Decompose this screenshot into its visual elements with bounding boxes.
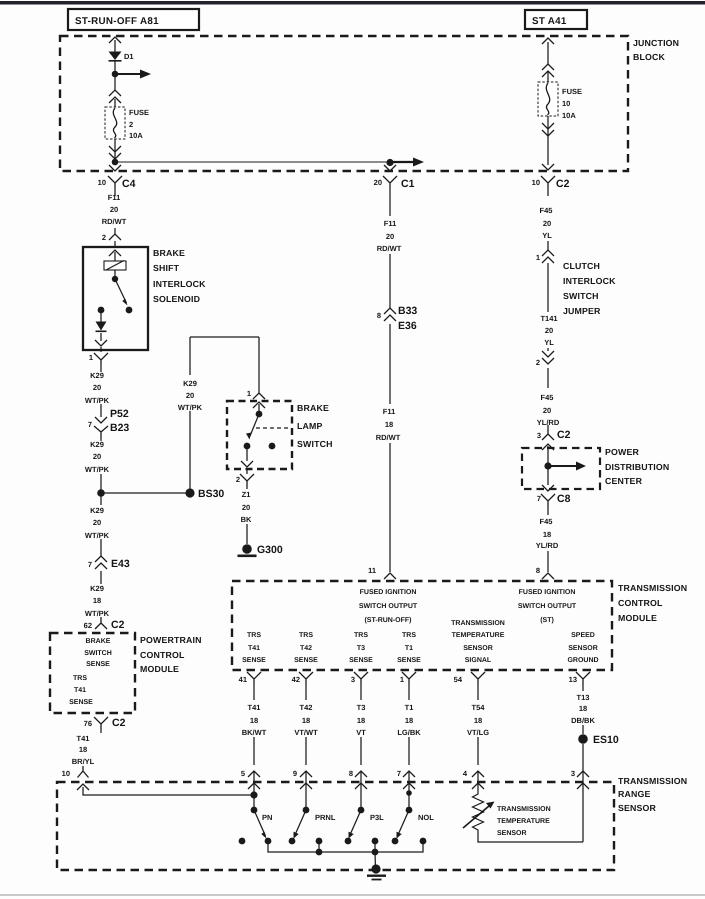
wire pin7 into TRS [408, 771, 410, 810]
svg-text:18: 18 [79, 745, 87, 754]
contact dot row 5 (P3L target) [345, 838, 352, 845]
svg-text:CONTROL: CONTROL [140, 650, 185, 660]
connector TRS pin9 [300, 771, 312, 789]
wire T13 [582, 685, 584, 734]
svg-text:BLOCK: BLOCK [633, 52, 666, 62]
wire fuse10 bottom [547, 116, 549, 165]
label TRS T42 SENSE [294, 632, 318, 664]
contact dot row 2 (PN target) [265, 838, 272, 845]
junction dot feeding C1/C4 [112, 159, 119, 166]
splice BS30 [185, 488, 194, 497]
svg-text:20: 20 [242, 503, 250, 512]
svg-text:76: 76 [84, 719, 92, 728]
wire label F45 20 YL [540, 206, 553, 240]
connector chevron brake lamp exit [241, 461, 253, 467]
svg-text:P52: P52 [110, 408, 129, 420]
label BRAKE LAMP SWITCH [297, 403, 333, 449]
contact dot row 7 (NOL target) [392, 838, 399, 845]
wire label Z1 20 BK [241, 490, 252, 524]
svg-text:F45: F45 [540, 206, 553, 215]
transmission range sensor dashed box [57, 782, 614, 870]
thermistor arrow [463, 802, 495, 829]
wire down to brake lamp switch [258, 337, 260, 393]
svg-text:10: 10 [98, 178, 106, 187]
svg-text:SENSE: SENSE [397, 657, 421, 664]
svg-text:18: 18 [93, 596, 101, 605]
connector pin1 solenoid (Y) [94, 353, 108, 366]
svg-text:WT/PK: WT/PK [85, 465, 110, 474]
connector C4 [108, 176, 122, 189]
splice ES10 [578, 734, 588, 744]
svg-text:SIGNAL: SIGNAL [465, 657, 492, 664]
wire pin5 into TRS [253, 771, 255, 810]
svg-text:T41: T41 [74, 687, 86, 694]
svg-text:1: 1 [536, 253, 540, 262]
label POWERTRAIN CONTROL MODULE [140, 635, 202, 674]
svg-text:WT/PK: WT/PK [85, 531, 110, 540]
svg-text:SENSOR: SENSOR [463, 645, 493, 652]
svg-text:SHIFT: SHIFT [153, 263, 180, 273]
svg-text:FUSED IGNITION: FUSED IGNITION [519, 589, 576, 596]
svg-text:F11: F11 [383, 407, 396, 416]
svg-text:F45: F45 [541, 393, 554, 402]
arrowhead P3L arm [349, 832, 354, 839]
wire D1 to dot [114, 61, 116, 90]
top page bar [0, 1, 705, 5]
svg-text:18: 18 [385, 420, 393, 429]
in-line connector E43 [95, 556, 107, 569]
pivot dot P3L [358, 807, 365, 814]
svg-text:SWITCH: SWITCH [84, 650, 112, 657]
svg-text:RD/WT: RD/WT [377, 244, 402, 253]
powertrain control module dashed box [50, 633, 135, 713]
svg-text:10A: 10A [562, 111, 576, 120]
label B33 E36 [398, 305, 417, 332]
svg-text:P3L: P3L [370, 813, 384, 822]
svg-text:41: 41 [239, 675, 247, 684]
node ST-RUN-OFF A81 [68, 9, 199, 30]
svg-text:BS30: BS30 [198, 488, 224, 500]
svg-text:T3: T3 [357, 703, 366, 712]
svg-text:C8: C8 [557, 493, 571, 505]
junction dot on A81 branch [112, 71, 119, 78]
label TRS T3 SENSE [349, 632, 373, 664]
ground at TRS bottom [367, 864, 386, 880]
wire to C2 pdc [547, 425, 549, 429]
svg-text:2: 2 [129, 120, 133, 129]
wire pin8 into TRS [360, 771, 362, 810]
svg-text:RD/WT: RD/WT [102, 217, 127, 226]
wire left contact to diode [100, 310, 102, 322]
svg-text:PRNL: PRNL [315, 813, 336, 822]
svg-text:B23: B23 [110, 422, 129, 434]
arrowhead brake lamp arm [246, 433, 252, 440]
svg-text:T42: T42 [300, 703, 313, 712]
svg-text:VT: VT [356, 728, 366, 737]
diode in solenoid [96, 322, 107, 333]
pivot dot PN [251, 807, 258, 814]
wire label F11 18 RD/WT [376, 407, 401, 442]
arrowhead PRNL arm [294, 832, 299, 839]
svg-text:BRAKE: BRAKE [297, 403, 329, 413]
wire into coil [114, 252, 116, 261]
svg-text:TRANSMISSION: TRANSMISSION [618, 776, 687, 786]
thermistor RT1 zigzag [473, 791, 484, 833]
svg-text:SENSE: SENSE [69, 699, 93, 706]
svg-text:8: 8 [536, 566, 540, 575]
contact bus polyline [268, 841, 423, 852]
svg-text:SENSE: SENSE [242, 657, 266, 664]
svg-text:TRANSMISSION: TRANSMISSION [451, 620, 505, 627]
wire pin10 elbow to pin5 column [83, 787, 254, 795]
svg-text:D1: D1 [124, 52, 134, 61]
wire T42 [305, 685, 307, 765]
svg-text:SENSE: SENSE [349, 657, 373, 664]
wire dot to fuse2 [114, 99, 116, 107]
svg-text:BR/YL: BR/YL [72, 757, 95, 766]
connector C2 pin3 pdc (male) [542, 429, 554, 440]
svg-text:SENSE: SENSE [86, 661, 110, 668]
svg-text:T41: T41 [248, 645, 260, 652]
svg-text:10A: 10A [129, 131, 143, 140]
connector C2 pin62 (male) [95, 619, 107, 629]
switch arm brake lamp [250, 414, 259, 436]
svg-text:TRS: TRS [247, 632, 261, 639]
svg-text:MODULE: MODULE [140, 664, 179, 674]
svg-text:(ST-RUN-OFF): (ST-RUN-OFF) [364, 616, 411, 624]
wire pin3 into TRS down [582, 771, 584, 842]
svg-text:G300: G300 [257, 544, 283, 556]
svg-text:ST A41: ST A41 [532, 16, 567, 27]
svg-text:9: 9 [293, 769, 297, 778]
contact dot in solenoid (right) [126, 307, 133, 314]
connector TRS pin5 [248, 771, 260, 789]
svg-text:20: 20 [543, 219, 551, 228]
svg-text:NOL: NOL [418, 813, 434, 822]
switch arm P3L [350, 810, 362, 836]
svg-text:SENSOR: SENSOR [497, 830, 527, 837]
svg-text:YL: YL [542, 231, 552, 240]
svg-text:K29: K29 [90, 371, 104, 380]
wire below C2-76 [100, 730, 102, 733]
wire horizontal bus to C1 [115, 161, 390, 163]
in-line connector chevrons above fuse 10 [542, 64, 554, 77]
svg-text:18: 18 [357, 716, 365, 725]
wire label K29 20 WT/PK (branch) [178, 379, 203, 412]
wire brake lamp exit [246, 446, 248, 474]
connector TRS pin8 [355, 771, 367, 789]
svg-text:T13: T13 [577, 693, 590, 702]
contact dot row 6 [372, 838, 379, 845]
svg-text:2: 2 [102, 233, 106, 242]
connector TCM pin42 (Y) [299, 672, 313, 685]
svg-text:18: 18 [302, 716, 310, 725]
svg-text:SPEED: SPEED [571, 632, 595, 639]
svg-text:7: 7 [397, 769, 401, 778]
junction dot on K29 wire [97, 489, 105, 497]
fuse F2 [105, 107, 125, 139]
pivot dot NOL [406, 807, 413, 814]
contact dot row 8 [420, 838, 427, 845]
svg-text:18: 18 [405, 716, 413, 725]
connector TCM pin54 (Y) [471, 672, 485, 685]
svg-text:10: 10 [562, 99, 570, 108]
svg-text:JUNCTION: JUNCTION [633, 38, 679, 48]
contact dot row 3 (PRNL target) [289, 838, 296, 845]
svg-text:C2: C2 [112, 717, 126, 729]
pivot dot PRNL [303, 807, 310, 814]
svg-text:18: 18 [579, 704, 587, 713]
svg-text:10: 10 [62, 769, 70, 778]
svg-text:E36: E36 [398, 320, 417, 332]
svg-text:20: 20 [374, 178, 382, 187]
connector TRS pin7 [403, 771, 415, 789]
label BRAKE SHIFT INTERLOCK SOLENOID [153, 248, 206, 304]
svg-text:T41: T41 [77, 734, 90, 743]
junction dot on bus right [372, 849, 379, 856]
svg-text:GROUND: GROUND [567, 657, 598, 664]
connector chevron below A81 [109, 37, 121, 43]
wire label T13 18 DB/BK [571, 693, 595, 725]
arrowhead of solenoid switch arm [122, 299, 127, 306]
svg-text:SWITCH OUTPUT: SWITCH OUTPUT [518, 603, 577, 610]
wire C1 down [389, 189, 391, 572]
svg-text:DB/BK: DB/BK [571, 716, 595, 725]
svg-text:FUSED IGNITION: FUSED IGNITION [360, 589, 417, 596]
svg-text:7: 7 [88, 420, 92, 429]
connector C1 [383, 176, 397, 189]
svg-text:RD/WT: RD/WT [376, 433, 401, 442]
in-line connector P52/B23 [94, 417, 108, 438]
label FUSED IGNITION SWITCH OUTPUT (ST) [518, 589, 577, 624]
label FUSE 2 10A [129, 108, 149, 140]
connector chevron above C2 [542, 164, 554, 170]
wire C8 down to TCM [547, 507, 549, 572]
connector chevron pin 2 solenoid [109, 234, 121, 240]
wire to BS30 junction [100, 438, 102, 505]
svg-text:BRAKE: BRAKE [153, 248, 185, 258]
svg-text:DISTRIBUTION: DISTRIBUTION [605, 462, 669, 472]
svg-text:T42: T42 [300, 645, 312, 652]
svg-text:T41: T41 [248, 703, 261, 712]
svg-text:CLUTCH: CLUTCH [563, 261, 600, 271]
svg-text:C1: C1 [401, 178, 415, 190]
svg-text:T54: T54 [472, 703, 486, 712]
in-line connector chevrons below fuse 2 [109, 146, 121, 159]
svg-text:20: 20 [545, 326, 553, 335]
wire thermistor bottom elbow [478, 833, 583, 842]
arrowhead PN arm [261, 832, 266, 839]
svg-text:TRS: TRS [402, 632, 416, 639]
wire A41 branch top [547, 42, 549, 64]
label PCM pins BRAKE SWITCH SENSE [69, 638, 112, 706]
svg-text:K29: K29 [183, 379, 197, 388]
svg-text:YL/RD: YL/RD [537, 418, 560, 427]
svg-text:1: 1 [89, 353, 93, 362]
svg-text:3: 3 [571, 769, 575, 778]
svg-text:54: 54 [454, 675, 463, 684]
connector chevron solenoid exit [95, 340, 107, 346]
connector TCM pin3 (Y) [354, 672, 368, 685]
svg-text:C4: C4 [122, 178, 136, 190]
svg-text:E43: E43 [111, 558, 130, 570]
svg-text:K29: K29 [90, 584, 104, 593]
contact dot row 4 [316, 838, 323, 845]
label CLUTCH INTERLOCK SWITCH JUMPER [563, 261, 616, 316]
wire label T41 18 BR/YL [72, 734, 95, 766]
svg-text:SENSE: SENSE [294, 657, 318, 664]
svg-text:SWITCH: SWITCH [563, 291, 599, 301]
svg-text:7: 7 [537, 494, 541, 503]
wire label F45 20 YL/RD [537, 393, 560, 427]
svg-text:PN: PN [262, 813, 272, 822]
svg-text:BK: BK [241, 515, 252, 524]
in-line connector chevrons below fuse 10 [542, 123, 554, 136]
wire A81 branch top [114, 40, 116, 52]
svg-text:F45: F45 [540, 517, 553, 526]
svg-text:2: 2 [536, 358, 540, 367]
svg-text:SWITCH OUTPUT: SWITCH OUTPUT [359, 603, 418, 610]
svg-text:YL/RD: YL/RD [536, 541, 559, 550]
svg-text:3: 3 [351, 675, 355, 684]
label FUSED IGNITION SWITCH OUTPUT (ST-RUN-OFF) [359, 589, 418, 624]
label TRANSMISSION CONTROL MODULE [618, 583, 687, 623]
connector chevron below C1 [384, 165, 396, 171]
svg-text:8: 8 [377, 311, 381, 320]
wire label K29 20 WT/PK (1) [85, 371, 110, 405]
wire ES10 to pin3 [582, 744, 584, 771]
in-line connector chevrons above fuse 2 [109, 90, 121, 103]
ground G300 [238, 544, 257, 557]
node ST A41 [525, 10, 587, 29]
svg-text:18: 18 [474, 716, 482, 725]
svg-text:8: 8 [349, 769, 353, 778]
svg-text:(ST): (ST) [540, 616, 554, 624]
junction dot pin7 top [406, 790, 412, 796]
svg-text:LG/BK: LG/BK [397, 728, 421, 737]
label P52 B23 [110, 408, 129, 434]
in-line connector pin1 jumper [542, 250, 554, 263]
wire coil to pivot dot [114, 270, 116, 279]
label JUNCTION BLOCK [633, 38, 679, 62]
wire T1 [408, 685, 410, 765]
in-line connector pin2 jumper [542, 351, 554, 364]
connector chevron pin10 below edge [77, 784, 89, 790]
wire T3 [360, 685, 362, 765]
arrow up toward ST A41 [542, 38, 554, 44]
wire diode to exit [100, 333, 102, 352]
wire label T141 20 YL [540, 314, 557, 347]
svg-text:20: 20 [93, 383, 101, 392]
connector TCM pin41 (Y) [247, 672, 261, 685]
svg-text:JUMPER: JUMPER [563, 306, 601, 316]
svg-text:20: 20 [186, 391, 194, 400]
spare contact dot brake lamp switch [269, 443, 276, 450]
contact dot row 1 [239, 838, 246, 845]
label TRS T1 SENSE [397, 632, 421, 664]
svg-text:20: 20 [543, 406, 551, 415]
svg-text:RANGE: RANGE [618, 789, 651, 799]
label TRANSMISSION TEMPERATURE SENSOR [497, 806, 551, 837]
svg-text:F11: F11 [384, 219, 397, 228]
transmission control module dashed box [232, 581, 612, 670]
brake shift interlock solenoid box U1 [83, 247, 148, 350]
svg-text:POWERTRAIN: POWERTRAIN [140, 635, 202, 645]
svg-text:F11: F11 [108, 193, 121, 202]
svg-text:18: 18 [250, 716, 258, 725]
diode D1 [109, 52, 122, 62]
svg-text:BK/WT: BK/WT [242, 728, 267, 737]
svg-text:TEMPERATURE: TEMPERATURE [497, 818, 550, 825]
wire K29 pin1 down [100, 366, 102, 417]
svg-text:POWER: POWER [605, 447, 639, 457]
connector TCM pin1 (Y) [402, 672, 416, 685]
svg-text:TRS: TRS [354, 632, 368, 639]
wire T41 [253, 685, 255, 765]
svg-text:10: 10 [532, 178, 540, 187]
connector chevron above C4 [109, 165, 121, 171]
svg-text:VT/WT: VT/WT [294, 728, 318, 737]
junction dot in pdc [544, 462, 551, 469]
svg-text:11: 11 [368, 566, 376, 575]
switch arm PN [254, 810, 266, 836]
svg-text:ST-RUN-OFF A81: ST-RUN-OFF A81 [75, 16, 159, 27]
contact dot brake lamp switch [244, 443, 251, 450]
svg-text:TRS: TRS [73, 675, 87, 682]
bottom page bar [0, 894, 705, 896]
svg-text:18: 18 [543, 530, 551, 539]
svg-text:C2: C2 [111, 619, 125, 631]
svg-text:INTERLOCK: INTERLOCK [153, 279, 206, 289]
svg-text:LAMP: LAMP [297, 421, 323, 431]
wire to fuse10 [547, 71, 549, 82]
wire C4 to solenoid [114, 189, 116, 247]
wire BS30 horizontal [101, 492, 190, 494]
wire Z1 to ground [246, 487, 248, 544]
pivot dot in solenoid [112, 276, 118, 282]
wire C2 down to clutch jumper [547, 189, 549, 388]
arrowhead NOL arm [397, 832, 402, 839]
wire to switch pivot [258, 404, 260, 414]
label TRANSMISSION TEMPERATURE SENSOR SIGNAL [451, 620, 505, 664]
pivot dot brake lamp switch [256, 411, 263, 418]
svg-text:42: 42 [292, 675, 300, 684]
svg-text:62: 62 [84, 621, 92, 630]
junction dot at C1 [386, 159, 393, 166]
svg-text:WT/PK: WT/PK [85, 396, 110, 405]
svg-text:K29: K29 [90, 506, 104, 515]
svg-text:INTERLOCK: INTERLOCK [563, 276, 616, 286]
wire label K29 18 WT/PK [85, 584, 110, 618]
svg-text:13: 13 [569, 675, 577, 684]
wire BS30 junction down [100, 539, 102, 619]
svg-text:K29: K29 [90, 440, 104, 449]
svg-text:C2: C2 [557, 429, 571, 441]
connector chevron inside brake lamp switch [253, 402, 265, 408]
svg-text:1: 1 [247, 389, 251, 398]
svg-text:TEMPERATURE: TEMPERATURE [452, 632, 505, 639]
svg-text:20: 20 [386, 232, 394, 241]
connector pin2 brake lamp switch (Y) [240, 474, 254, 487]
wire label T41 18 BK/WT [242, 703, 267, 737]
label TRANSMISSION RANGE SENSOR [618, 776, 687, 813]
svg-text:ES10: ES10 [593, 734, 619, 746]
svg-text:2: 2 [236, 475, 240, 484]
switch arm NOL [398, 810, 410, 836]
wire label T1 18 LG/BK [397, 703, 421, 737]
svg-text:SWITCH: SWITCH [297, 439, 333, 449]
wire inside pdc [547, 446, 549, 485]
